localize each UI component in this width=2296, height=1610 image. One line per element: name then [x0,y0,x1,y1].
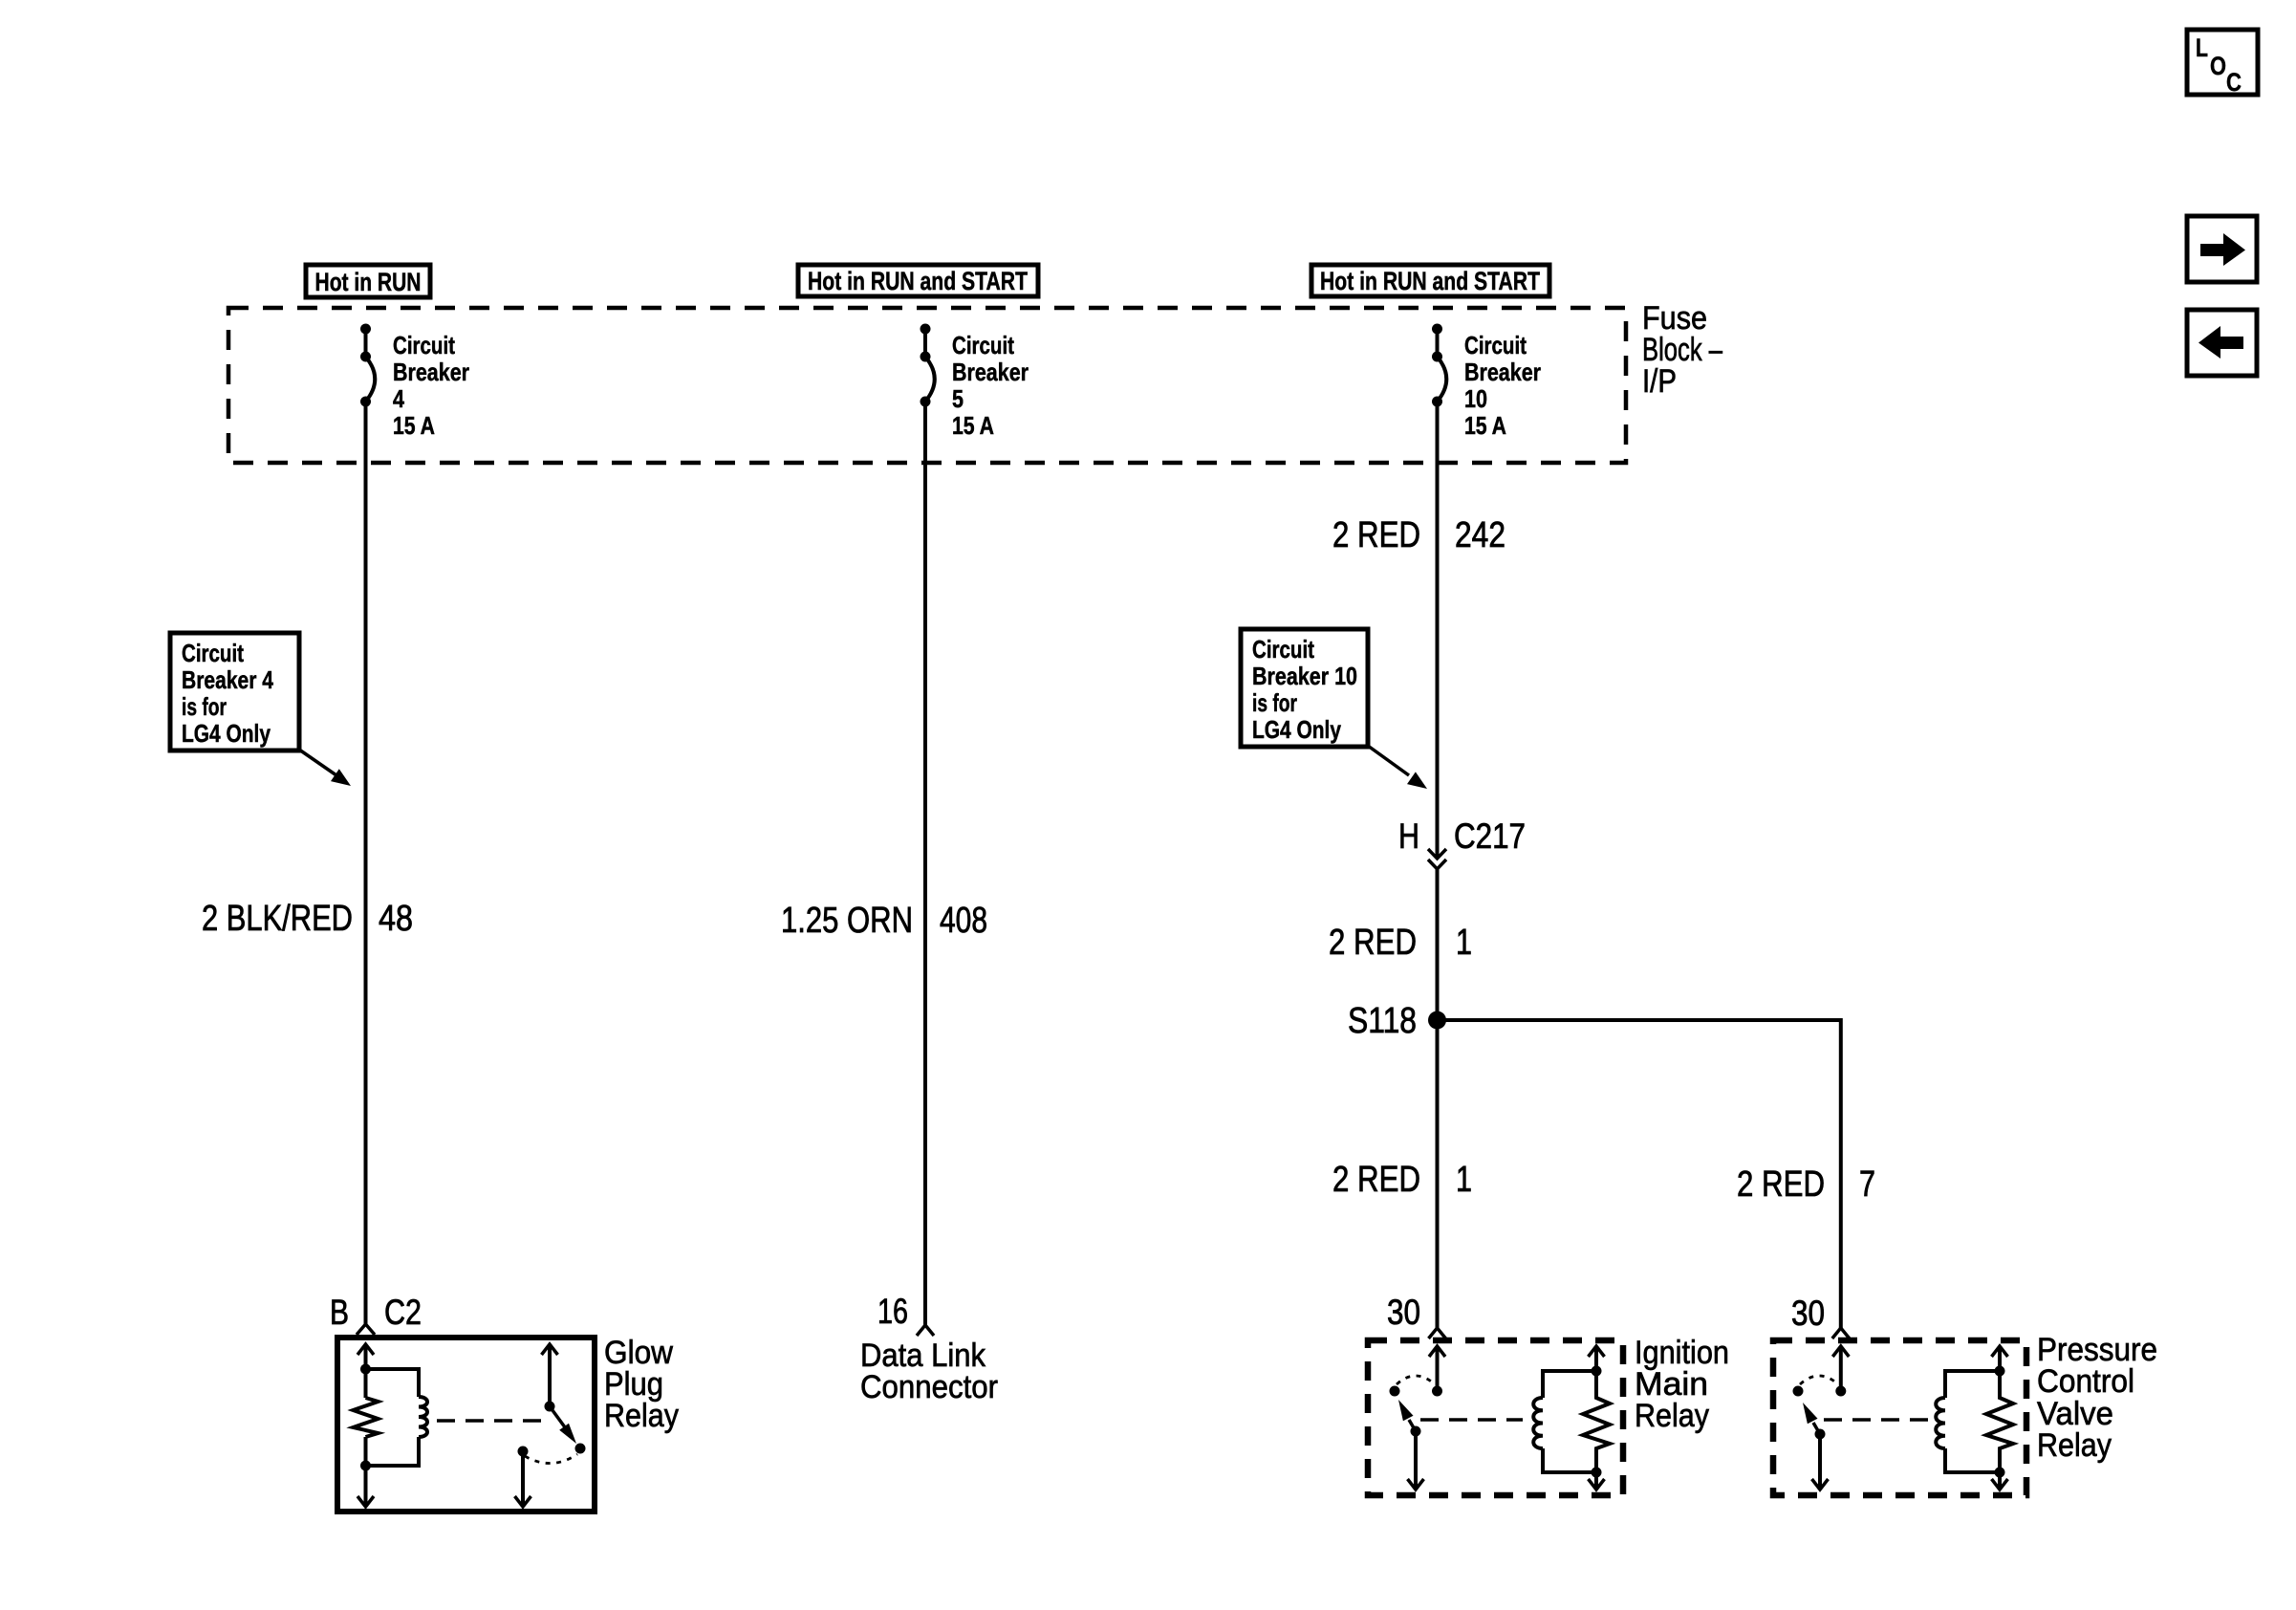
ignition main relay dashed box [1368,1340,1623,1495]
svg-text:C217: C217 [1454,816,1526,856]
svg-text:Breaker: Breaker [952,358,1029,386]
pressure relay coil bottom junction [1995,1468,2005,1478]
wire label 1.25 ORN 408 [781,901,987,941]
glow relay fixed contact [518,1447,529,1457]
svg-text:B: B [330,1293,349,1332]
svg-text:15 A: 15 A [1464,411,1506,440]
Hot in RUN and START label box (center) [798,265,1038,296]
glow relay switch pivot [545,1402,555,1412]
svg-text:Circuit: Circuit [1252,635,1314,664]
circuit breaker 5 [921,324,1029,441]
data link connector label [860,1338,998,1405]
svg-text:LG4 Only: LG4 Only [182,719,271,748]
svg-text:L: L [2196,33,2208,62]
ignition main relay label [1635,1335,1729,1434]
pressure relay switch pivot [1815,1429,1826,1440]
glow relay top junction [360,1364,371,1375]
pressure control valve relay label [2037,1332,2157,1464]
svg-text:Breaker 10: Breaker 10 [1252,662,1357,690]
glow plug relay label [604,1335,679,1434]
wire: C217 to S118 [1436,869,1440,1020]
svg-text:1: 1 [1456,923,1472,963]
pressure control valve relay dashed box [1773,1340,2026,1495]
svg-text:Relay: Relay [1635,1398,1709,1434]
pressure relay left contact [1793,1386,1804,1397]
note box: Circuit Breaker 10 is for LG4 Only [1241,629,1368,747]
glow relay bottom junction [360,1461,371,1471]
svg-text:C2: C2 [384,1293,422,1332]
glow relay pin B entry arrow [357,1344,374,1369]
svg-text:2 RED: 2 RED [1332,515,1420,555]
svg-text:2 RED: 2 RED [1332,1160,1420,1200]
svg-text:Circuit: Circuit [1464,331,1527,359]
svg-text:Connector: Connector [860,1369,998,1405]
svg-text:Hot in RUN and START: Hot in RUN and START [808,267,1028,295]
ignition relay switch travel arc [1397,1376,1435,1384]
svg-text:Circuit: Circuit [393,331,455,359]
svg-text:Relay: Relay [2037,1427,2112,1464]
svg-text:Breaker: Breaker [393,358,469,386]
LOC page icon box [2187,30,2258,97]
svg-text:408: 408 [940,901,987,941]
connector pin 16 at data link connector [877,1292,934,1336]
svg-text:242: 242 [1455,515,1505,555]
svg-text:10: 10 [1464,384,1487,413]
pressure relay switch travel arc [1800,1376,1838,1384]
glow relay switch arm [550,1406,576,1444]
svg-text:Breaker: Breaker [1464,358,1541,386]
Fuse Block label [1642,300,1722,400]
wire: S118 to ignition main relay [1436,1020,1440,1328]
svg-text:2 BLK/RED: 2 BLK/RED [202,899,353,939]
svg-text:Breaker 4: Breaker 4 [182,665,273,694]
glow relay dashed actuation line [437,1419,542,1423]
svg-text:Circuit: Circuit [952,331,1014,359]
svg-text:Hot in RUN and START: Hot in RUN and START [1320,267,1540,295]
glow relay coil [366,1369,428,1466]
glow relay switch common entry arrow [542,1344,558,1406]
Fuse Block I/P dashed box [228,308,1626,463]
svg-text:48: 48 [379,899,413,939]
svg-text:I/P: I/P [1642,363,1677,400]
pressure relay switch output pin arrow [1812,1434,1829,1490]
wire label 2 RED 1 (above S118) [1329,923,1472,963]
svg-text:is for: is for [1252,688,1297,717]
ignition relay switch pivot [1411,1426,1421,1437]
svg-text:2 RED: 2 RED [1329,923,1417,963]
back arrow icon [2187,310,2257,376]
glow relay switch output pin arrow [515,1451,531,1507]
svg-text:C: C [2226,68,2242,97]
glow relay moving contact [575,1444,586,1454]
connector B C2 at glow plug relay [330,1293,422,1335]
ignition relay coil ground pin arrow [1589,1472,1605,1490]
ignition relay coil bottom junction [1592,1468,1602,1478]
svg-text:5: 5 [952,384,964,413]
svg-text:Relay: Relay [604,1398,679,1434]
pressure relay resistor [1986,1371,2013,1472]
svg-text:1: 1 [1456,1160,1472,1200]
pressure relay coil top junction [1995,1366,2005,1377]
svg-text:1.25 ORN: 1.25 ORN [781,901,913,941]
svg-text:15 A: 15 A [393,411,435,440]
pressure relay pin 30 entry arrow [1832,1346,1849,1391]
ignition relay coil top junction [1592,1366,1602,1377]
note arrow to wire 48 [299,750,351,786]
ignition relay switch output pin arrow [1408,1431,1424,1490]
glow relay switch travel arc [525,1454,577,1464]
wire: circuit breaker 10 to connector C217 [1436,402,1440,857]
svg-text:Control: Control [2037,1363,2134,1400]
pressure relay coil ground pin arrow [1992,1472,2008,1490]
Hot in RUN and START label box (right) [1311,265,1549,296]
ignition relay right contact [1432,1386,1442,1397]
svg-text:H: H [1398,816,1419,856]
wire: circuit breaker 5 to data link connector [923,402,927,1325]
svg-text:30: 30 [1387,1293,1420,1332]
splice node S118 [1348,1001,1446,1041]
wire: circuit breaker 4 to glow plug relay [364,402,368,1324]
glow plug relay box [337,1338,595,1512]
svg-text:15 A: 15 A [952,411,994,440]
ignition relay coil feed arrow [1589,1346,1605,1371]
note arrow to wire 242 [1368,746,1427,789]
svg-text:4: 4 [393,384,404,413]
connector pin 30 at ignition main relay [1387,1293,1446,1338]
pressure relay coil [1936,1371,2000,1472]
svg-text:2 RED: 2 RED [1737,1164,1825,1205]
ignition relay coil [1533,1371,1596,1472]
note box: Circuit Breaker 4 is for LG4 Only [170,633,299,751]
glow relay ground pin arrow [357,1466,374,1507]
svg-text:is for: is for [182,692,227,721]
circuit breaker 4 [360,324,469,441]
wire label 2 BLK/RED 48 [202,899,413,939]
wire: S118 branch to pressure control valve relay [1438,1020,1841,1328]
svg-text:30: 30 [1791,1294,1825,1333]
Hot in RUN label box [306,265,430,297]
circuit breaker 10 [1432,324,1541,441]
svg-text:Hot in RUN: Hot in RUN [315,268,422,296]
ignition relay resistor [1583,1371,1610,1472]
glow relay resistor [354,1369,379,1466]
pressure relay right contact [1835,1386,1846,1397]
wire label 2 RED 7 [1737,1164,1875,1205]
svg-text:7: 7 [1859,1164,1875,1205]
ignition relay switch arm [1398,1400,1416,1431]
forward arrow icon [2187,216,2257,282]
connector H C217 [1398,816,1526,869]
svg-text:LG4 Only: LG4 Only [1252,715,1341,744]
wire label 2 RED 1 (below S118) [1332,1160,1472,1200]
svg-text:O: O [2210,52,2226,80]
ignition relay dashed actuation line [1420,1418,1523,1422]
svg-text:S118: S118 [1348,1001,1417,1041]
wire label 2 RED 242 [1332,515,1505,555]
pressure relay coil feed arrow [1992,1346,2008,1371]
ignition relay pin 30 entry arrow [1429,1346,1445,1391]
pressure relay switch arm [1803,1403,1820,1434]
ignition relay left contact [1390,1386,1400,1397]
svg-text:16: 16 [877,1292,908,1331]
connector pin 30 at pressure control valve relay [1791,1294,1850,1338]
pressure relay dashed actuation line [1824,1418,1929,1422]
svg-text:Circuit: Circuit [182,639,244,667]
